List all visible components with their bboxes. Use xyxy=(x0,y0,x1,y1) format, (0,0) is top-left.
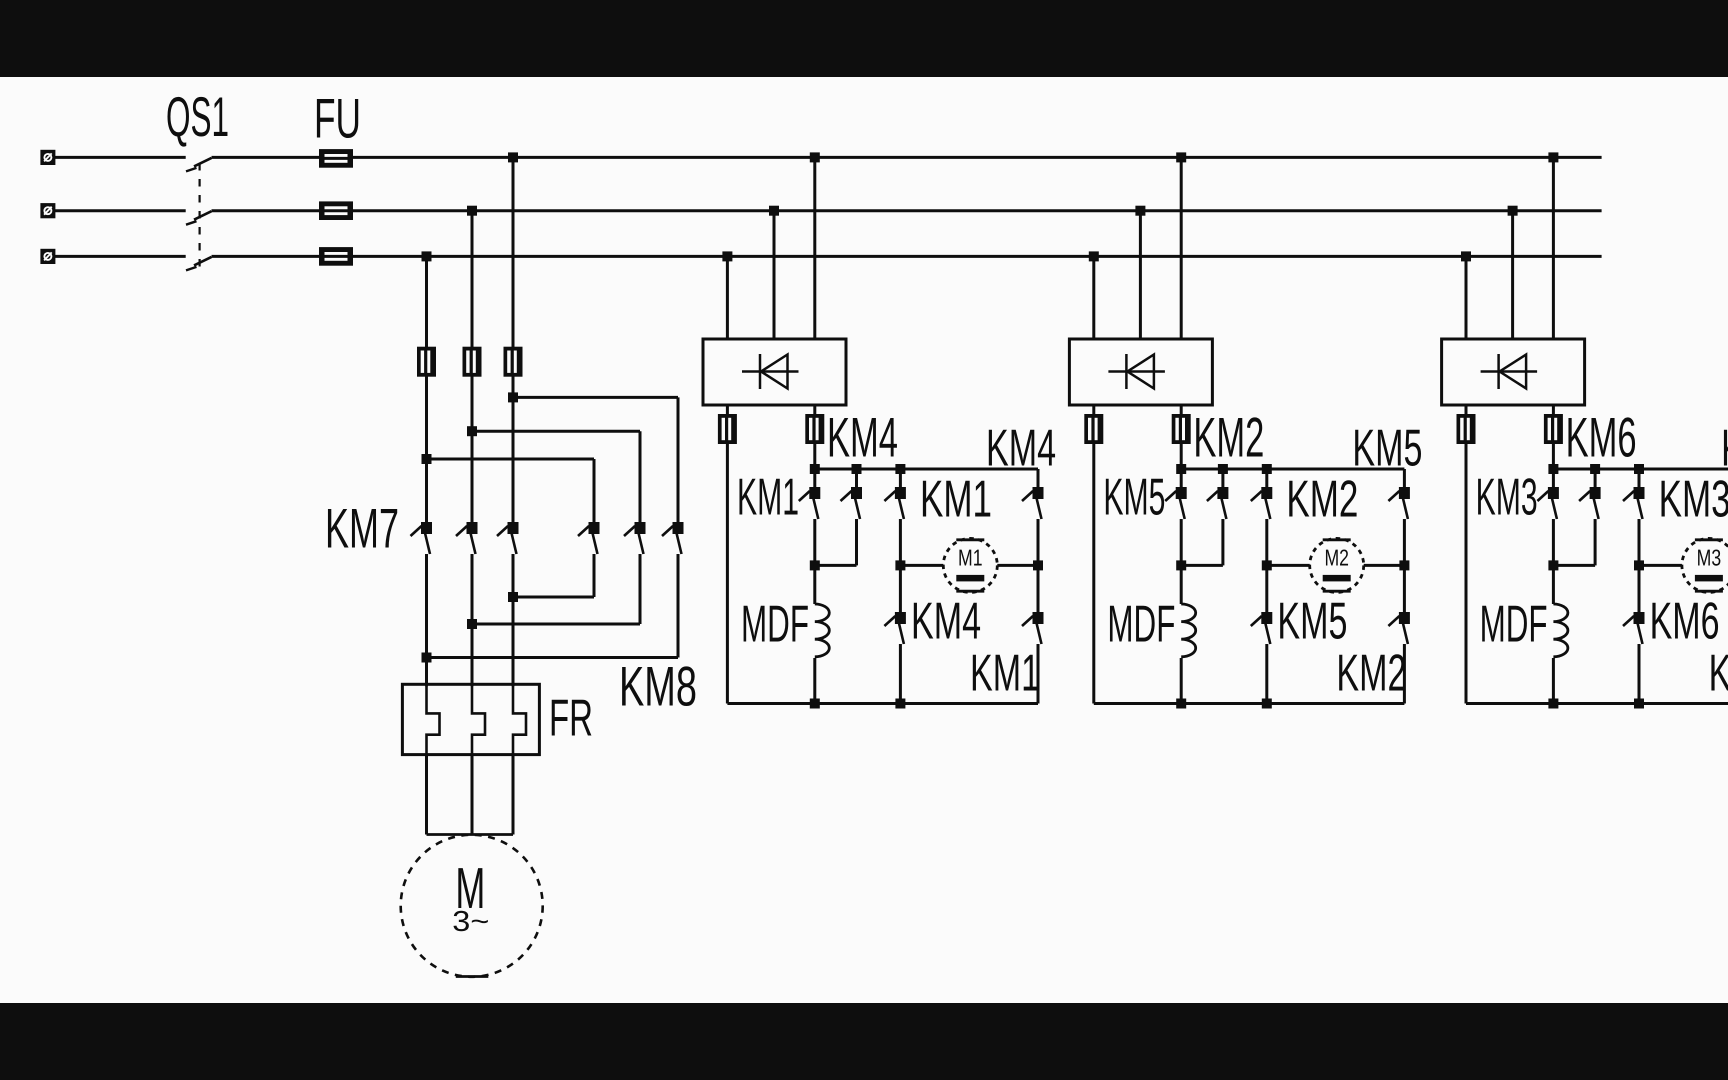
wire: branch2 top rail xyxy=(1181,468,1404,471)
contact KM5 (motor top-right) xyxy=(1388,487,1410,519)
svg-text:KM5: KM5 xyxy=(1277,592,1347,650)
wire: branch1 motor lead left xyxy=(900,564,943,567)
wire: branch1 right to bottom rail xyxy=(1037,644,1040,704)
svg-text:M3: M3 xyxy=(1697,545,1722,571)
junction: branch1 bottom rail left xyxy=(810,699,820,709)
wire: KM8 vertical 1 upper xyxy=(593,459,596,522)
wire: phase L2 bus xyxy=(212,209,1602,212)
wire: crossover top 1 xyxy=(427,458,595,461)
junction: branch3 rail col2 xyxy=(1590,464,1600,474)
wire: branch1 motor lead right xyxy=(997,564,1038,567)
wire: branch3 top rail xyxy=(1553,468,1728,471)
wire: branch1 col2 stub xyxy=(855,469,858,487)
contact KM4 (motor top-right) xyxy=(1022,487,1044,519)
junction: branch1 rail col3 xyxy=(895,464,905,474)
wire: KM8 vertical 2 lower xyxy=(639,554,642,624)
wire: branch3 rectifier input 2 xyxy=(1511,211,1514,339)
svg-text:KM6: KM6 xyxy=(1566,405,1637,468)
junction: branch1 input tap 3 xyxy=(810,152,820,162)
diode symbol branch2 xyxy=(1108,354,1165,389)
junction: branch2 brake node xyxy=(1176,560,1186,570)
wire: branch3 fuse to top rail xyxy=(1552,442,1555,469)
wire: branch2 motor lead left xyxy=(1267,564,1310,567)
svg-text:KM4: KM4 xyxy=(827,405,898,468)
wire: KM8 vertical 2 upper xyxy=(639,431,642,522)
coil MDF (branch2 brake magnet) xyxy=(1181,604,1196,657)
coil MDF (branch3 brake magnet) xyxy=(1553,604,1568,657)
junction: branch2 input tap 1 xyxy=(1089,251,1099,261)
diode symbol branch3 xyxy=(1481,354,1538,389)
wire: branch1 col2 to node xyxy=(855,519,858,565)
wire: branch3 col2 stub xyxy=(1594,469,1597,487)
svg-text:KM3: KM3 xyxy=(1709,644,1728,702)
supply terminal L1 xyxy=(40,150,55,165)
junction: branch2 rail col2 xyxy=(1218,464,1228,474)
wire: branch1 node to coil xyxy=(813,565,816,604)
wire: branch3 col1 to node xyxy=(1552,519,1555,565)
junction: branch1 input tap 1 xyxy=(722,251,732,261)
fuse FU pole 1 xyxy=(319,149,353,168)
junction: branch1 input tap 2 xyxy=(769,206,779,216)
svg-text:KM6: KM6 xyxy=(1721,419,1728,477)
junction: branch3 input tap 2 xyxy=(1508,206,1518,216)
junction: branch2 bottom rail right xyxy=(1262,699,1272,709)
junction: join node pole 3 xyxy=(422,653,432,663)
wire: branch1 right lower stub xyxy=(1037,565,1040,612)
fuse, branch1 DC left xyxy=(718,414,737,444)
diode symbol branch1 xyxy=(742,354,799,389)
contact KM3 (motor top-left) xyxy=(1623,487,1645,519)
wire: branch3 rectifier input 1 xyxy=(1465,256,1468,339)
svg-text:KM1: KM1 xyxy=(737,468,799,526)
junction: branch1 motor right node xyxy=(1033,560,1043,570)
wire: branch3 DC output left xyxy=(1465,405,1468,416)
svg-text:MDF: MDF xyxy=(1107,595,1175,653)
svg-text:MDF: MDF xyxy=(741,595,809,653)
svg-text:FR: FR xyxy=(549,689,593,747)
junction: branch2 motor right node xyxy=(1399,560,1409,570)
wire: drop 1 from phase to KM7 xyxy=(425,256,428,522)
wire: phase L2 left of QS1 xyxy=(55,209,186,212)
contact KM8 pole 3 xyxy=(662,522,684,554)
junction: branch3 rail start xyxy=(1548,464,1558,474)
fuse, branch3 DC left xyxy=(1457,414,1476,444)
junction: branch1 motor left node xyxy=(895,560,905,570)
wire: branch1 DC output right xyxy=(813,405,816,416)
wire: branch2 col1 to node xyxy=(1180,519,1183,565)
svg-text:KM8: KM8 xyxy=(619,655,697,718)
top letterbox bar xyxy=(0,0,1728,77)
wire: branch2 right stub xyxy=(1403,469,1406,487)
svg-text:KM3: KM3 xyxy=(1476,468,1538,526)
supply terminal L2 xyxy=(40,203,55,218)
wire: branch2 node to coil xyxy=(1180,565,1183,604)
junction: branch1 bottom rail right xyxy=(895,699,905,709)
junction: branch3 brake node xyxy=(1548,560,1558,570)
heater element FR pole 1 xyxy=(427,684,440,754)
bottom letterbox bar xyxy=(0,1003,1728,1080)
wire: KM7 pole 2 to FR xyxy=(471,554,474,686)
contact KM6 (motor bottom-left) xyxy=(1623,612,1645,644)
fuse, left branch pole 3 xyxy=(504,347,523,377)
wire: branch3 col2 to node xyxy=(1594,519,1597,565)
svg-text:KM2: KM2 xyxy=(1286,470,1358,528)
motor M top chord xyxy=(427,833,514,836)
wire: branch1 top rail xyxy=(815,468,1038,471)
wire: branch1 col1 to node xyxy=(813,519,816,565)
contact KM8 pole 2 xyxy=(624,522,646,554)
fuse, left branch pole 2 xyxy=(463,347,482,377)
contact KM7 pole 1 xyxy=(411,522,433,554)
wire: branch3 col3 stub xyxy=(1638,469,1641,487)
wire: branch1 left return rail xyxy=(726,442,729,704)
wire: crossover bottom 1 xyxy=(513,596,594,599)
contact KM8 pole 1 xyxy=(578,522,600,554)
wire: branch2 DC output right xyxy=(1180,405,1183,416)
wire: branch1 rectifier input 1 xyxy=(726,256,729,339)
wire: drop 3 from phase to KM7 xyxy=(512,157,515,522)
wire: branch2 rectifier input 1 xyxy=(1092,256,1095,339)
wire: branch1 col3 to motor node xyxy=(899,519,902,565)
contact KM2 (brake, right) xyxy=(1207,487,1229,519)
contact KM5 (brake, left) xyxy=(1165,487,1187,519)
svg-text:MDF: MDF xyxy=(1480,595,1548,653)
wire: branch1 col1 stub xyxy=(813,469,816,487)
contact KM4 (brake, right) xyxy=(841,487,863,519)
wire: branch2 DC output left xyxy=(1092,405,1095,416)
contact KM5 (motor bottom-left) xyxy=(1251,612,1273,644)
fuse, left branch pole 1 xyxy=(417,347,436,377)
fuse, branch2 DC right xyxy=(1172,414,1191,444)
junction: branch1 rail start xyxy=(810,464,820,474)
contact KM7 pole 3 xyxy=(497,522,519,554)
junction: branch3 input tap 1 xyxy=(1461,251,1471,261)
junction: branch3 motor left node xyxy=(1634,560,1644,570)
wire: branch2 brake node link xyxy=(1181,564,1223,567)
junction: join node pole 2 xyxy=(467,619,477,629)
svg-text:KM7: KM7 xyxy=(325,496,399,559)
svg-text:FU: FU xyxy=(314,86,361,149)
svg-text:M1: M1 xyxy=(958,545,983,571)
svg-text:KM4: KM4 xyxy=(986,419,1056,477)
wire: branch2 right to motor node xyxy=(1403,519,1406,565)
svg-text:KM5: KM5 xyxy=(1352,419,1422,477)
wire: branch2 right to bottom rail xyxy=(1403,644,1406,704)
wire: branch2 col3 to motor node xyxy=(1265,519,1268,565)
fuse FU pole 2 xyxy=(319,201,353,220)
wire: phase L1 bus xyxy=(212,156,1602,159)
wire: branch3 node to coil xyxy=(1552,565,1555,604)
switch QS1 pole 3 xyxy=(186,257,212,271)
junction: branch1 brake node xyxy=(810,560,820,570)
wire: branch1 bottom rail xyxy=(727,702,1038,705)
switch QS1 linkage (dashed) xyxy=(199,163,201,274)
contact KM2 (motor bottom-right) xyxy=(1388,612,1410,644)
wire: crossover bottom 3 xyxy=(427,656,679,659)
wire: branch3 col1 stub xyxy=(1552,469,1555,487)
fuse, branch3 DC right xyxy=(1544,414,1563,444)
contact KM6 (brake, right) xyxy=(1579,487,1601,519)
junction: branch3 rail col3 xyxy=(1634,464,1644,474)
rectifier bridge branch1 xyxy=(703,339,846,405)
svg-text:KM1: KM1 xyxy=(920,470,992,528)
wire: phase L3 left of QS1 xyxy=(55,255,186,258)
wire: branch2 motor lead right xyxy=(1364,564,1405,567)
svg-text:KM3: KM3 xyxy=(1659,470,1728,528)
wire: branch1 right stub xyxy=(1037,469,1040,487)
wire: crossover top 3 xyxy=(513,396,678,399)
junction: split node pole 3 xyxy=(508,392,518,402)
svg-text:KM4: KM4 xyxy=(911,592,981,650)
junction: branch1 rail col2 xyxy=(852,464,862,474)
svg-text:KM1: KM1 xyxy=(970,644,1040,702)
contact KM4 (motor bottom-left) xyxy=(884,612,906,644)
heater element FR pole 2 xyxy=(472,684,485,754)
junction: branch3 bottom rail left xyxy=(1548,699,1558,709)
wire: branch1 fuse to top rail xyxy=(813,442,816,469)
wire: branch2 fuse to top rail xyxy=(1180,442,1183,469)
junction: branch2 rail start xyxy=(1176,464,1186,474)
wire: branch2 col3 lower stub xyxy=(1265,565,1268,612)
wire: branch3 bottom rail xyxy=(1466,702,1728,705)
wire: branch1 col3 lower stub xyxy=(899,565,902,612)
motor M 3~ (dashed circle) xyxy=(401,835,543,977)
wire: branch2 left return rail xyxy=(1092,442,1095,704)
wire: KM8 vertical 3 upper xyxy=(677,397,680,522)
wire: branch3 col3 to motor node xyxy=(1638,519,1641,565)
wire: branch2 rectifier input 2 xyxy=(1139,211,1142,339)
motor M bottom chord xyxy=(456,975,489,978)
rectifier bridge branch3 xyxy=(1442,339,1585,405)
wire: branch2 col3 to bottom rail xyxy=(1265,644,1268,704)
wire: phase L1 left of QS1 xyxy=(55,156,186,159)
wire: branch3 col3 lower stub xyxy=(1638,565,1641,612)
wire: branch3 motor lead left xyxy=(1639,564,1682,567)
wire: branch2 col2 stub xyxy=(1221,469,1224,487)
wire: branch1 rectifier input 3 xyxy=(813,157,816,339)
wire: branch2 right lower stub xyxy=(1403,565,1406,612)
wire: FR to motor M pole 2 xyxy=(471,755,474,835)
junction: branch2 input tap 2 xyxy=(1135,206,1145,216)
junction: drop 1 tap xyxy=(422,251,432,261)
wire: KM8 vertical 1 lower xyxy=(593,554,596,597)
junction: branch3 bottom rail right xyxy=(1634,699,1644,709)
heater element FR pole 3 xyxy=(513,684,526,754)
switch QS1 pole 1 xyxy=(186,158,212,172)
junction: branch2 motor left node xyxy=(1262,560,1272,570)
motor M1 (DC) xyxy=(943,538,997,592)
switch QS1 pole 2 xyxy=(186,211,212,225)
junction: branch3 input tap 3 xyxy=(1548,152,1558,162)
wire: branch3 coil to bottom rail xyxy=(1552,658,1555,704)
wire: branch2 col3 stub xyxy=(1265,469,1268,487)
wire: FR to motor M pole 1 xyxy=(425,755,428,835)
rectifier bridge branch2 xyxy=(1069,339,1212,405)
wire: branch1 right to motor node xyxy=(1037,519,1040,565)
contact KM1 (brake, left) xyxy=(799,487,821,519)
contact KM3 (brake, left) xyxy=(1537,487,1559,519)
junction: split node pole 2 xyxy=(467,426,477,436)
svg-text:KM2: KM2 xyxy=(1193,405,1264,468)
wire: branch1 brake node link xyxy=(815,564,857,567)
wire: branch2 col1 stub xyxy=(1180,469,1183,487)
wire: KM7 pole 1 to FR xyxy=(425,554,428,686)
fuse FU pole 3 xyxy=(319,247,353,266)
motor M3 (DC) xyxy=(1682,538,1728,592)
svg-text:KM2: KM2 xyxy=(1336,644,1406,702)
wire: KM7 pole 3 to FR xyxy=(512,554,515,686)
wire: branch3 rectifier input 3 xyxy=(1552,157,1555,339)
svg-text:3~: 3~ xyxy=(452,906,489,938)
thermal overload relay FR box xyxy=(402,684,539,754)
svg-text:M2: M2 xyxy=(1324,545,1349,571)
svg-text:QS1: QS1 xyxy=(166,85,229,148)
wire: branch1 col3 stub xyxy=(899,469,902,487)
wire: branch1 DC output left xyxy=(726,405,729,416)
wire: FR to motor M pole 3 xyxy=(512,755,515,835)
junction: drop 3 tap xyxy=(508,152,518,162)
wire: phase L3 bus xyxy=(212,255,1602,258)
svg-text:KM5: KM5 xyxy=(1103,468,1165,526)
wire: branch3 left return rail xyxy=(1465,442,1468,704)
supply terminal L3 xyxy=(40,249,55,264)
wire: crossover bottom 2 xyxy=(472,623,640,626)
fuse, branch1 DC right xyxy=(805,414,824,444)
junction: branch2 rail col3 xyxy=(1262,464,1272,474)
contact KM7 pole 2 xyxy=(456,522,478,554)
svg-text:KM6: KM6 xyxy=(1650,592,1720,650)
coil MDF (branch1 brake magnet) xyxy=(815,604,830,657)
wire: crossover top 2 xyxy=(472,430,640,433)
wire: branch3 DC output right xyxy=(1552,405,1555,416)
junction: join node pole 1 xyxy=(508,592,518,602)
fuse, branch2 DC left xyxy=(1084,414,1103,444)
motor M2 (DC) xyxy=(1310,538,1364,592)
junction: branch2 input tap 3 xyxy=(1176,152,1186,162)
contact KM1 (motor bottom-right) xyxy=(1022,612,1044,644)
wire: branch1 coil to bottom rail xyxy=(813,658,816,704)
wire: branch1 col3 to bottom rail xyxy=(899,644,902,704)
contact KM1 (motor top-left) xyxy=(884,487,906,519)
wire: branch3 col3 to bottom rail xyxy=(1638,644,1641,704)
junction: branch2 bottom rail left xyxy=(1176,699,1186,709)
junction: drop 2 tap xyxy=(467,206,477,216)
wire: branch3 brake node link xyxy=(1553,564,1595,567)
wire: branch2 rectifier input 3 xyxy=(1180,157,1183,339)
wire: KM8 vertical 3 lower xyxy=(677,554,680,658)
wire: drop 2 from phase to KM7 xyxy=(471,211,474,522)
wire: branch2 bottom rail xyxy=(1094,702,1405,705)
junction: split node pole 1 xyxy=(422,454,432,464)
wire: branch1 rectifier input 2 xyxy=(773,211,776,339)
wire: branch2 col2 to node xyxy=(1221,519,1224,565)
wire: branch2 coil to bottom rail xyxy=(1180,658,1183,704)
contact KM2 (motor top-left) xyxy=(1251,487,1273,519)
